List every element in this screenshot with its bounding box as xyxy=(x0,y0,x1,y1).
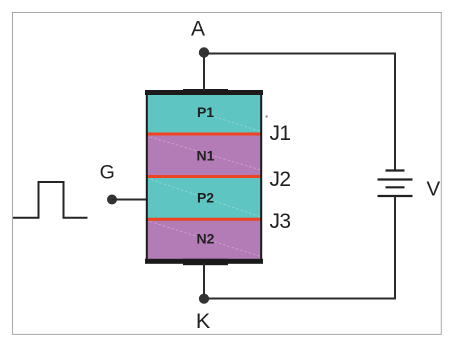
wire gate to P2 xyxy=(112,199,147,201)
battery plate 1 short xyxy=(386,169,405,171)
junction J2 line xyxy=(146,175,262,178)
texture line N1 xyxy=(150,137,261,170)
layer P2 xyxy=(146,177,262,221)
svg-text:V: V xyxy=(427,177,441,200)
svg-text:A: A xyxy=(191,18,205,41)
texture line N2 xyxy=(150,222,261,257)
svg-text:P1: P1 xyxy=(197,104,214,120)
gate trigger pulse waveform xyxy=(13,182,88,218)
texture line P2 xyxy=(151,180,260,217)
anode electrode bar xyxy=(145,90,263,95)
cathode wire xyxy=(203,263,205,299)
layer N1 xyxy=(146,134,262,177)
body side edges xyxy=(146,91,148,262)
svg-text:J3: J3 xyxy=(270,210,291,233)
svg-text:N2: N2 xyxy=(197,231,215,247)
svg-text:G: G xyxy=(100,162,115,184)
cathode contact segment xyxy=(183,259,228,265)
svg-text:J1: J1 xyxy=(270,122,291,145)
svg-text:N1: N1 xyxy=(197,148,215,164)
battery plate 2 long xyxy=(378,178,413,180)
anode contact segment xyxy=(183,89,228,95)
junction J1 line xyxy=(146,133,262,136)
svg-text:P2: P2 xyxy=(197,190,214,206)
battery plate 4 long xyxy=(378,195,413,197)
wire node A to battery xyxy=(204,54,395,171)
battery plate 3 short xyxy=(386,186,405,188)
junction J3 line xyxy=(146,218,262,221)
svg-text:J2: J2 xyxy=(270,168,291,191)
svg-text:K: K xyxy=(196,309,211,333)
layer N2 xyxy=(146,220,262,263)
wire battery to K node xyxy=(204,196,395,299)
anode node xyxy=(199,47,209,57)
anode wire xyxy=(203,53,205,92)
texture line P1 xyxy=(206,114,261,132)
gate node xyxy=(107,195,117,205)
stray dot xyxy=(265,115,267,117)
layer P1 xyxy=(146,91,262,135)
cathode node xyxy=(199,294,209,304)
cathode electrode bar xyxy=(145,259,263,264)
